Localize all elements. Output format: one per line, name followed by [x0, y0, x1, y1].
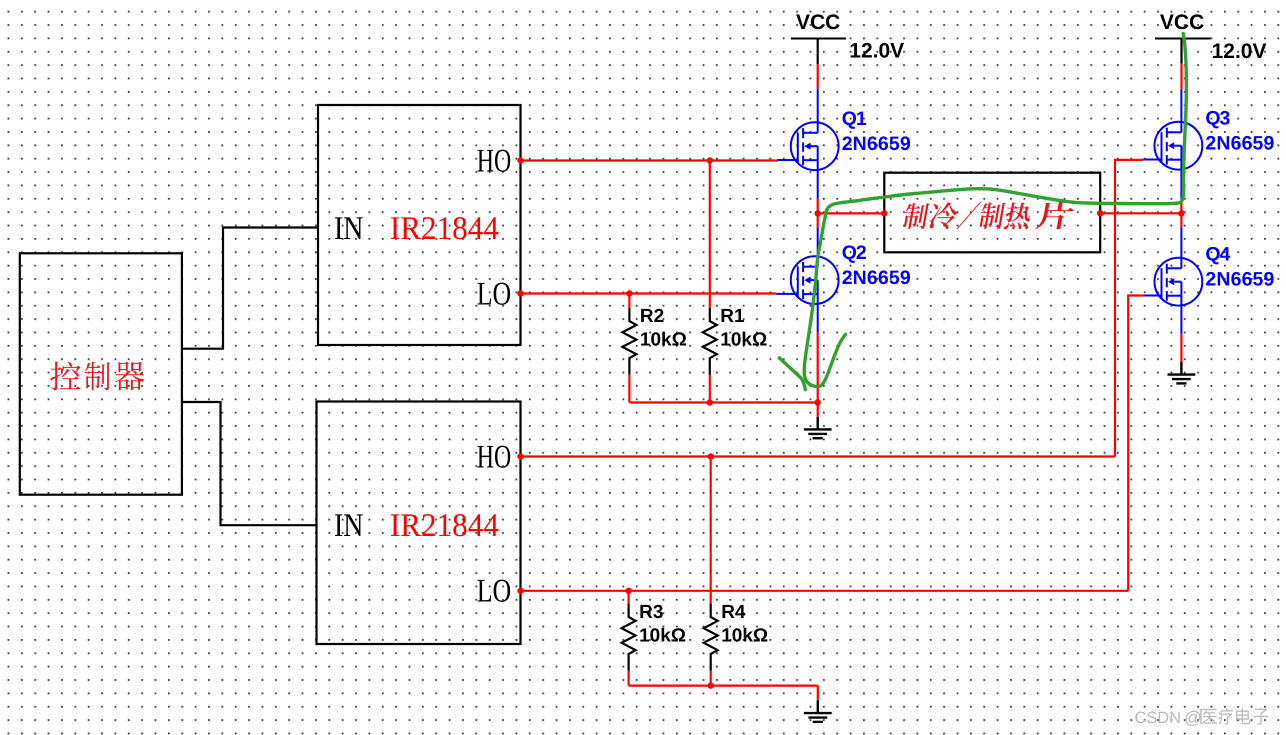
wire controller to U2 IN	[182, 402, 317, 525]
ground 2 (bottom half)	[804, 701, 832, 722]
wire R2 stub upper	[628, 294, 630, 308]
svg-text:R4: R4	[721, 602, 746, 623]
node gnd bus R4	[708, 682, 714, 688]
wire HO1	[521, 159, 779, 161]
svg-text:LO: LO	[477, 276, 512, 312]
wire R1 branch upper	[709, 161, 711, 308]
wire LO2	[521, 590, 1129, 592]
controller label 控制器	[50, 362, 144, 391]
resistor R4	[704, 604, 718, 671]
ground 3 (right, Q4 source)	[1168, 362, 1196, 383]
node Q1-Q2 midpoint	[815, 210, 821, 216]
svg-text:VCC: VCC	[1160, 11, 1204, 34]
svg-text:12.0V: 12.0V	[1212, 40, 1267, 63]
green annotation main stroke	[804, 34, 1186, 387]
resistor R3	[622, 604, 636, 671]
svg-text:2N6659: 2N6659	[842, 133, 911, 155]
svg-text:12.0V: 12.0V	[849, 40, 904, 63]
node LO2 port	[517, 588, 523, 594]
resistor R1	[703, 308, 717, 375]
wire HO2 riser to Q3 gate	[1115, 160, 1143, 457]
node gnd bus Q2	[815, 399, 821, 405]
svg-text:Q1: Q1	[842, 108, 867, 130]
svg-text:R1: R1	[720, 306, 745, 327]
svg-text:CSDN: CSDN	[1135, 709, 1181, 727]
svg-text:LO: LO	[477, 574, 512, 610]
node load left port	[881, 210, 887, 216]
wire LO2 riser to Q4 gate	[1128, 296, 1143, 591]
wire Q2 source	[817, 333, 819, 403]
IR21844 driver box U2	[317, 402, 521, 645]
svg-text:Q2: Q2	[842, 242, 867, 264]
svg-text:10kΩ: 10kΩ	[721, 625, 768, 646]
svg-text:R2: R2	[640, 306, 664, 327]
svg-text:10kΩ: 10kΩ	[639, 625, 686, 646]
green annotation check stroke	[779, 358, 805, 390]
power VCC symbol 1	[791, 38, 846, 40]
svg-text:IN: IN	[334, 508, 364, 544]
wire R1 branch lower	[709, 375, 711, 403]
wire VCC1 feed	[817, 64, 819, 89]
wire HO2	[521, 455, 1116, 457]
wire LO1	[521, 292, 777, 294]
wire controller to U1 IN	[182, 228, 318, 349]
node load right port	[1097, 210, 1103, 216]
svg-text:R3: R3	[639, 602, 663, 623]
svg-text:Q3: Q3	[1205, 108, 1230, 130]
svg-text:10kΩ: 10kΩ	[640, 330, 687, 351]
node R3 junction	[625, 588, 631, 594]
svg-text:10kΩ: 10kΩ	[720, 330, 767, 351]
transistor Q3 2N6659	[1143, 90, 1202, 202]
svg-text:IR21844: IR21844	[390, 508, 499, 544]
node HO1 port	[517, 157, 523, 163]
svg-text:2N6659: 2N6659	[1205, 132, 1274, 154]
power VCC symbol 2	[1155, 38, 1211, 40]
svg-text:IN: IN	[334, 211, 364, 247]
ground 1 (top half)	[804, 417, 832, 438]
node HO2 port	[517, 453, 523, 459]
transistor Q4 2N6659	[1143, 227, 1202, 334]
wire VCC2 feed	[1180, 64, 1182, 90]
svg-text:HO: HO	[477, 143, 512, 179]
node R1 top junction	[707, 157, 713, 163]
load label 制冷/制热片	[902, 201, 1075, 229]
transistor Q1 2N6659	[778, 89, 839, 199]
resistor R2	[622, 308, 636, 375]
watermark CSDN @医疗电子	[1135, 708, 1269, 728]
IR21844 driver box U1	[318, 105, 521, 345]
transistor Q2 2N6659	[776, 228, 838, 333]
svg-text:IR21844: IR21844	[390, 211, 499, 247]
wire ground bus bottom	[629, 684, 818, 686]
svg-text:2N6659: 2N6659	[842, 267, 911, 289]
wire load right	[1100, 212, 1181, 214]
wire R4 branch lower	[710, 671, 712, 686]
load box 制冷/制热片	[884, 173, 1100, 253]
wire ground1 stub	[817, 403, 819, 417]
wire R2 stub lower	[628, 375, 630, 403]
wire Q4 source	[1180, 334, 1182, 362]
svg-text:@: @	[1184, 708, 1202, 728]
wire R3 stub upper	[627, 591, 629, 604]
node LO1 port	[517, 290, 523, 296]
wire R3 stub lower	[627, 671, 629, 686]
svg-text:Q4: Q4	[1205, 244, 1230, 266]
svg-text:HO: HO	[477, 439, 512, 475]
node Q3-Q4 midpoint	[1178, 210, 1184, 216]
svg-text:2N6659: 2N6659	[1205, 268, 1274, 290]
wire ground2 stub	[817, 686, 819, 701]
wire node Q1-Q2	[817, 199, 819, 228]
controller box U5	[20, 253, 182, 494]
wire R4 branch upper	[710, 457, 712, 604]
node R2 junction	[626, 290, 632, 296]
svg-text:VCC: VCC	[796, 11, 840, 34]
wire node Q3-Q4	[1180, 202, 1182, 227]
node R4 top junction	[708, 453, 714, 459]
wire ground bus top	[629, 401, 817, 403]
wire load left	[818, 212, 885, 214]
node gnd bus R1	[707, 399, 713, 405]
